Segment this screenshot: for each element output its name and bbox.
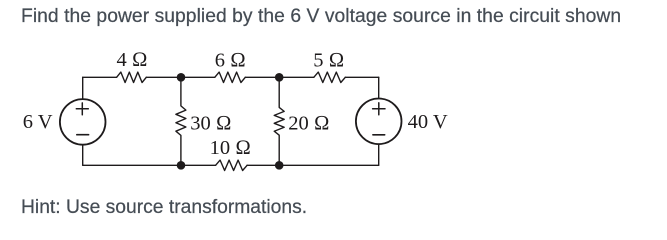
- svg-text:5 Ω: 5 Ω: [313, 50, 344, 72]
- node D dot: [275, 161, 284, 170]
- resistor R3 5ohm zigzag: [314, 72, 346, 82]
- svg-text:6 Ω: 6 Ω: [215, 50, 246, 72]
- node B dot: [275, 73, 284, 82]
- wire left branch upper: [82, 77, 84, 99]
- hint text: [21, 201, 307, 215]
- problem statement text: [21, 10, 621, 24]
- svg-text:6 V: 6 V: [23, 111, 53, 133]
- V2 plus sign: [373, 103, 385, 115]
- wire right branch lower: [378, 144, 380, 165]
- resistor R2 6ohm zigzag: [215, 72, 246, 82]
- resistor R4 30ohm vertical: [176, 77, 186, 165]
- voltage source V2 circle: [356, 99, 402, 145]
- wire top-left segment: [83, 76, 117, 78]
- voltage source V1 circle: [60, 99, 106, 145]
- svg-text:10 Ω: 10 Ω: [210, 137, 251, 159]
- wire right branch upper: [378, 77, 380, 98]
- wire top-right segment: [345, 76, 378, 78]
- wire top between R1 and node A: [146, 76, 215, 78]
- node A dot: [177, 73, 186, 82]
- resistor R5 20ohm vertical: [274, 77, 284, 165]
- wire bottom-right segment: [247, 164, 379, 166]
- svg-text:30 Ω: 30 Ω: [190, 113, 231, 135]
- wire top between R2 and node B: [245, 76, 313, 78]
- wire bottom-left segment: [83, 164, 216, 166]
- V2 minus sign: [373, 134, 385, 136]
- V1 plus sign: [76, 103, 88, 115]
- svg-text:20 Ω: 20 Ω: [288, 113, 329, 135]
- node C dot: [177, 161, 186, 170]
- wire left branch lower: [82, 145, 84, 166]
- resistor R6 10ohm zigzag: [216, 160, 248, 170]
- svg-text:4 Ω: 4 Ω: [116, 49, 147, 71]
- svg-text:40 V: 40 V: [408, 111, 448, 133]
- resistor R1 4ohm zigzag: [117, 72, 147, 82]
- V1 minus sign: [77, 134, 89, 136]
